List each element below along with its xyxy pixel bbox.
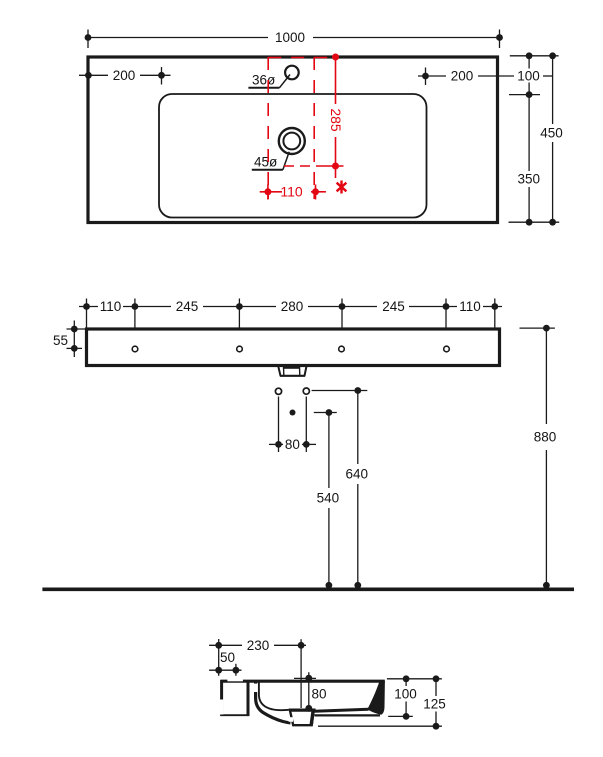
svg-text:450: 450 <box>540 126 563 141</box>
svg-text:80: 80 <box>312 687 327 702</box>
floor line <box>42 587 574 591</box>
svg-text:110: 110 <box>100 299 122 314</box>
red dim 110 <box>260 185 326 200</box>
dim 55 <box>67 321 91 358</box>
svg-text:55: 55 <box>53 333 68 348</box>
dim 450 vertical line <box>509 52 560 225</box>
dim 100 (section) <box>387 675 442 719</box>
svg-text:640: 640 <box>346 467 369 482</box>
svg-text:880: 880 <box>534 430 557 445</box>
svg-text:110: 110 <box>280 184 303 200</box>
basin inner rounded rect <box>159 94 427 218</box>
svg-text:100: 100 <box>517 69 540 84</box>
drain hole 45ø <box>252 128 305 170</box>
wall bracket <box>220 680 249 716</box>
svg-text:125: 125 <box>423 696 446 711</box>
svg-text:280: 280 <box>281 299 304 314</box>
wall notch white <box>254 684 258 692</box>
panel holes <box>132 346 449 352</box>
drain top line <box>289 708 316 710</box>
svg-text:200: 200 <box>451 69 474 84</box>
dim 125 (section) <box>318 675 442 729</box>
dim chain 110/245/280/245/110 <box>79 299 502 330</box>
front panel <box>87 329 500 366</box>
dim chain 100/350 vertical line <box>509 52 540 225</box>
svg-text:200: 200 <box>113 68 136 83</box>
right wall wedge <box>367 681 385 715</box>
dim 540 <box>314 409 337 589</box>
drain center dot <box>290 410 296 416</box>
svg-text:36ø: 36ø <box>252 73 275 88</box>
trap under panel <box>278 366 306 376</box>
svg-text:110: 110 <box>459 299 481 314</box>
red dim 285 vertical <box>284 54 344 179</box>
faucet hole 36ø <box>248 66 298 88</box>
svg-text:540: 540 <box>317 491 340 506</box>
section rim top <box>220 680 384 683</box>
basin bottom line right of drain <box>314 709 368 711</box>
dim 1000 horizontal <box>85 30 503 49</box>
svg-text:45ø: 45ø <box>254 155 277 170</box>
bracket slot white <box>220 700 224 715</box>
svg-text:50: 50 <box>220 650 235 665</box>
basin outer wall and bottom <box>256 683 291 723</box>
dim 880 <box>520 325 555 589</box>
red dashed zone box <box>268 57 335 199</box>
drain box (section) <box>290 711 314 726</box>
svg-text:230: 230 <box>247 638 270 653</box>
dim 230 <box>209 639 306 708</box>
svg-text:1000: 1000 <box>275 30 305 45</box>
red asterisk <box>337 181 347 194</box>
dim 200 right / 100 note line <box>418 68 553 86</box>
svg-text:245: 245 <box>176 299 199 314</box>
dim 640 <box>312 387 368 589</box>
underside line right of drain <box>315 714 381 716</box>
rim notch white <box>227 679 243 681</box>
svg-text:100: 100 <box>394 686 417 701</box>
dim 50 <box>209 664 241 676</box>
svg-text:285: 285 <box>328 108 344 132</box>
svg-text:350: 350 <box>518 172 541 187</box>
svg-text:80: 80 <box>285 437 300 452</box>
dim 200 left <box>79 67 171 85</box>
washbasin outer rect (plan view) <box>88 57 498 223</box>
dim 80 (section) <box>294 672 316 711</box>
svg-text:245: 245 <box>382 299 405 314</box>
dim 80 (front) <box>269 397 316 453</box>
wall fixing holes below panel <box>275 388 309 394</box>
drain left notch <box>289 717 293 722</box>
basin interior bottom line <box>259 683 289 711</box>
